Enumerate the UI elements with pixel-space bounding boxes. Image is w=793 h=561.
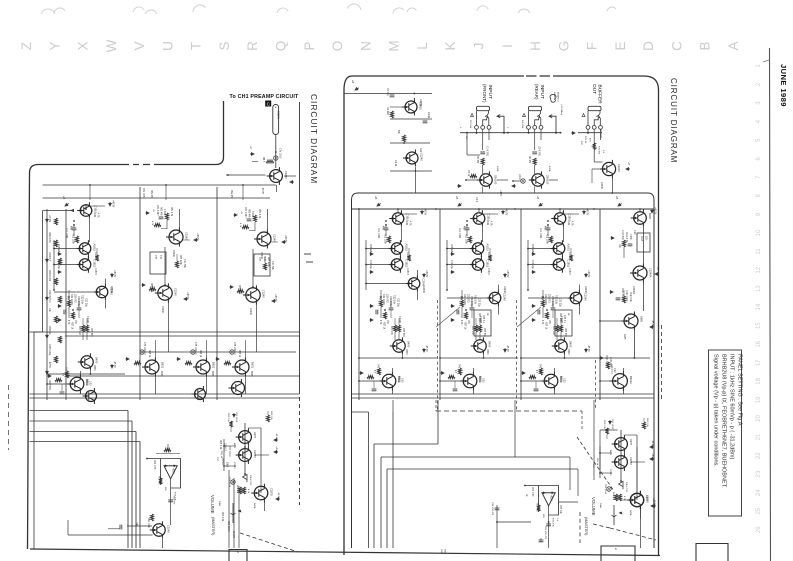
pin dot xyxy=(476,132,478,134)
wire xyxy=(164,247,166,285)
wire xyxy=(440,357,518,359)
svg-text:11: 11 xyxy=(756,248,762,255)
svg-text:C2240: C2240 xyxy=(161,306,163,313)
svg-text:(MASTER): (MASTER) xyxy=(584,517,588,536)
svg-text:+45.8V: +45.8V xyxy=(113,270,115,278)
svg-text:R75 47k: R75 47k xyxy=(598,146,600,155)
svg-text:W: W xyxy=(104,39,119,52)
wire xyxy=(238,486,240,548)
wire xyxy=(461,307,463,318)
wire xyxy=(267,411,269,415)
transistor Q2 xyxy=(403,150,418,167)
wire xyxy=(600,129,602,140)
wire xyxy=(380,290,382,300)
svg-text:R5 47k: R5 47k xyxy=(476,156,478,164)
transistor Q14 xyxy=(469,256,484,273)
svg-text:-45.8V: -45.8V xyxy=(652,498,654,505)
wire xyxy=(560,318,562,325)
wire buffer local xyxy=(578,132,602,134)
svg-text:C57 10/16: C57 10/16 xyxy=(228,446,230,457)
wire dashed xyxy=(595,360,597,410)
supply arrow xyxy=(611,237,615,240)
electrolytic capacitor C33 xyxy=(230,350,234,354)
svg-text:C1 4.7/50: C1 4.7/50 xyxy=(486,146,488,157)
wire bus xyxy=(43,184,276,186)
svg-text:C2240: C2240 xyxy=(185,232,189,240)
wire xyxy=(252,249,254,287)
svg-text:H: H xyxy=(528,41,543,51)
resistor R9 xyxy=(379,300,382,307)
svg-text:D400: D400 xyxy=(488,341,492,348)
wire xyxy=(47,373,125,375)
right block border top xyxy=(352,75,524,77)
wire xyxy=(390,310,392,318)
junction xyxy=(73,220,75,222)
svg-text:-45.8V: -45.8V xyxy=(275,433,277,440)
wire xyxy=(535,381,537,388)
resistor R28 xyxy=(559,325,562,332)
resistor R30 xyxy=(529,375,536,378)
transistor Q7 xyxy=(388,240,403,257)
transistor Q48 xyxy=(192,386,206,402)
svg-text:+N: +N xyxy=(240,211,242,214)
module box xyxy=(150,252,166,274)
supply arrow xyxy=(272,300,276,303)
junction xyxy=(146,458,148,460)
svg-text:O: O xyxy=(330,41,345,52)
wire xyxy=(127,525,152,527)
wire xyxy=(466,230,468,236)
supply arrow xyxy=(512,185,516,188)
wire bus xyxy=(392,412,394,548)
wire xyxy=(104,301,106,309)
svg-text:C2240: C2240 xyxy=(617,164,621,172)
svg-text:B631: B631 xyxy=(251,362,255,369)
junction xyxy=(466,132,468,134)
wire xyxy=(472,368,474,372)
wire xyxy=(230,427,232,432)
svg-text:0.22: 0.22 xyxy=(633,230,635,235)
svg-text:R11: R11 xyxy=(93,213,96,218)
wire xyxy=(611,178,613,193)
wire xyxy=(472,390,474,394)
wire xyxy=(398,332,400,340)
transistor Q49 xyxy=(236,428,252,446)
junction xyxy=(465,309,467,311)
wire xyxy=(514,400,516,457)
wire xyxy=(471,300,473,308)
svg-text:C2240: C2240 xyxy=(284,171,288,179)
junction xyxy=(252,286,254,288)
supply arrow xyxy=(233,413,236,417)
svg-text:R27 1k: R27 1k xyxy=(464,322,466,330)
amp section border xyxy=(358,193,654,548)
svg-text:C2240: C2240 xyxy=(172,250,174,257)
wire xyxy=(390,170,432,172)
registration dash xyxy=(304,253,311,255)
resistor R26 xyxy=(545,312,548,319)
wire feedback xyxy=(42,211,44,333)
svg-text:50V: 50V xyxy=(580,141,582,145)
supply arrow xyxy=(177,358,181,361)
bottom border line xyxy=(30,549,660,556)
wire bus xyxy=(30,410,129,412)
svg-text:18: 18 xyxy=(756,377,762,384)
wire xyxy=(205,376,207,394)
svg-text:C2240: C2240 xyxy=(273,234,277,242)
svg-text:C1-2: C1-2 xyxy=(475,197,478,203)
wire xyxy=(620,430,622,482)
svg-text:R12 150k: R12 150k xyxy=(72,234,74,245)
wire bus xyxy=(380,457,382,548)
svg-text:R83 47k: R83 47k xyxy=(248,209,250,218)
registration dash xyxy=(306,261,313,263)
supply arrow xyxy=(58,319,62,322)
supply arrow xyxy=(360,372,364,375)
wire xyxy=(549,179,558,181)
wire xyxy=(156,453,180,455)
svg-text:+B: +B xyxy=(374,196,378,200)
wire xyxy=(161,539,163,548)
module box xyxy=(555,310,572,336)
svg-text:C8x 10/50: C8x 10/50 xyxy=(142,188,144,199)
connector box xyxy=(696,544,728,561)
left block border dashed xyxy=(133,164,150,166)
junction xyxy=(548,521,550,523)
wire xyxy=(390,118,432,120)
resistor R43 xyxy=(54,278,57,285)
wire xyxy=(592,168,599,170)
svg-text:47/50: 47/50 xyxy=(48,362,50,368)
supply arrow xyxy=(58,253,62,256)
svg-text:R23 10k: R23 10k xyxy=(393,295,396,305)
transistor Q44 xyxy=(142,358,159,377)
wire xyxy=(248,427,261,429)
wire xyxy=(89,371,91,374)
wire xyxy=(390,93,432,95)
svg-text:C7x 10/16: C7x 10/16 xyxy=(279,148,281,159)
capacitor C4 xyxy=(532,152,537,154)
wire xyxy=(593,400,595,469)
svg-text:R115: R115 xyxy=(640,236,642,242)
svg-text:0.01: 0.01 xyxy=(159,255,161,260)
junction xyxy=(415,170,417,172)
svg-text:R65 2.2k: R65 2.2k xyxy=(219,440,221,450)
svg-text:A970: A970 xyxy=(253,432,257,439)
svg-text:R27 1k: R27 1k xyxy=(383,322,385,330)
supply arrow xyxy=(655,273,659,276)
jack pin xyxy=(533,126,537,130)
resistor R55 xyxy=(55,378,62,381)
resistor R52 xyxy=(81,325,84,332)
wire xyxy=(528,248,550,250)
supply arrow xyxy=(46,258,49,262)
wire xyxy=(621,499,628,501)
svg-text:R204 100k: R204 100k xyxy=(48,270,50,282)
svg-text:R11: R11 xyxy=(567,221,570,226)
wire xyxy=(47,383,68,385)
svg-text:23: 23 xyxy=(756,470,762,477)
svg-text:+45.8V: +45.8V xyxy=(274,294,276,302)
svg-text:R21 1/2W: R21 1/2W xyxy=(544,294,547,305)
junction xyxy=(89,184,91,186)
svg-text:R12 150k: R12 150k xyxy=(384,234,386,245)
svg-text:50kB: 50kB xyxy=(226,462,228,468)
wire xyxy=(68,534,153,536)
supply arrow xyxy=(532,319,536,322)
wire xyxy=(408,248,410,255)
scan artifact arc xyxy=(41,9,54,14)
wire xyxy=(43,210,74,212)
resistor R27 xyxy=(555,325,558,332)
svg-text:0.01 56k: 0.01 56k xyxy=(183,259,185,269)
svg-text:D400: D400 xyxy=(569,341,573,348)
supply arrow xyxy=(600,357,604,360)
wire xyxy=(86,318,88,325)
jack pin xyxy=(599,126,603,130)
right block border left xyxy=(344,76,352,555)
junction xyxy=(446,264,448,266)
supply arrow xyxy=(421,210,424,214)
wire xyxy=(61,384,63,391)
supply arrow xyxy=(230,286,234,289)
resistor R11 xyxy=(393,325,396,332)
wire xyxy=(471,310,473,318)
supply arrow xyxy=(184,298,188,301)
page rule line xyxy=(770,48,771,561)
wire xyxy=(577,469,579,496)
junction xyxy=(514,208,516,210)
capacitor C26 xyxy=(77,308,82,310)
diode D xyxy=(619,481,624,489)
capacitor C19 xyxy=(616,298,621,300)
resistor R68 xyxy=(266,415,269,422)
wire xyxy=(179,209,181,228)
svg-text:C11 1/2W: C11 1/2W xyxy=(539,228,541,239)
transistor Q37 xyxy=(78,353,93,370)
resistor R2 xyxy=(402,135,405,142)
wire xyxy=(528,264,550,266)
supply arrow xyxy=(504,273,507,277)
resistor R1 xyxy=(390,111,393,118)
wire bus xyxy=(30,441,141,443)
wire xyxy=(154,340,156,358)
svg-text:R121 560: R121 560 xyxy=(621,288,623,299)
module box xyxy=(254,254,270,276)
wire dashed xyxy=(581,411,583,430)
svg-text:220 IRD: 220 IRD xyxy=(386,294,389,303)
svg-text:To CH1 PREAMP CIRCUIT: To CH1 PREAMP CIRCUIT xyxy=(230,94,299,100)
wire xyxy=(600,320,623,322)
svg-text:A1015: A1015 xyxy=(92,244,96,252)
wire xyxy=(578,285,580,292)
resistor R38 xyxy=(537,505,540,511)
svg-text:R87 220k: R87 220k xyxy=(267,257,269,268)
resistor R31 xyxy=(622,240,625,247)
junction xyxy=(559,208,561,210)
wire xyxy=(639,509,641,548)
supply arrow xyxy=(650,326,654,329)
wire bus xyxy=(65,335,300,337)
capacitor C12 xyxy=(457,310,459,315)
svg-text:R12 150k: R12 150k xyxy=(546,234,548,245)
wire xyxy=(413,98,415,101)
jack bushing xyxy=(588,106,601,110)
svg-text:R87 220k: R87 220k xyxy=(179,255,181,266)
supply arrow xyxy=(451,319,455,322)
svg-text:+45.8V: +45.8V xyxy=(112,200,114,208)
wire xyxy=(385,224,387,228)
junction xyxy=(397,208,399,210)
junction xyxy=(365,264,367,266)
resistor R53 xyxy=(85,325,88,332)
wire xyxy=(599,430,601,470)
wire xyxy=(562,227,564,242)
junction xyxy=(507,132,509,134)
electrolytic capacitor C32 xyxy=(191,350,195,354)
transistor Q51 xyxy=(251,484,268,503)
scan artifact arc xyxy=(518,9,529,13)
svg-text:+45.8V: +45.8V xyxy=(425,270,427,278)
wire xyxy=(600,472,612,474)
resistor R49 xyxy=(95,255,98,261)
wire stage bus xyxy=(139,187,141,400)
svg-text:R63 2.2k: R63 2.2k xyxy=(221,512,223,522)
supply arrow xyxy=(126,358,130,361)
svg-text:G: G xyxy=(556,41,571,52)
wire xyxy=(252,161,258,163)
svg-text:22: 22 xyxy=(756,452,762,459)
wire strip bus xyxy=(439,209,441,400)
wire xyxy=(563,213,579,215)
wire xyxy=(497,521,531,523)
supply arrow xyxy=(522,372,526,375)
supply arrow xyxy=(370,271,374,274)
supply arrow xyxy=(652,505,656,508)
svg-text:R23 10k: R23 10k xyxy=(555,295,558,305)
wire xyxy=(569,457,571,490)
svg-text:C11 1/2W: C11 1/2W xyxy=(377,228,379,239)
svg-text:4.7k: 4.7k xyxy=(571,221,574,226)
wire xyxy=(244,423,246,475)
wire xyxy=(599,446,601,478)
wire xyxy=(86,332,88,340)
svg-text:R81 4.7k: R81 4.7k xyxy=(258,209,260,219)
resistor R21 xyxy=(458,368,461,375)
wire dashed diagonal xyxy=(577,437,614,491)
supply arrow xyxy=(46,296,49,300)
junction xyxy=(223,445,225,447)
capacitor C23 xyxy=(495,508,500,510)
svg-text:C1815: C1815 xyxy=(568,268,570,275)
wire xyxy=(633,330,635,358)
svg-text:R53 2.2k: R53 2.2k xyxy=(227,413,229,423)
wire dashed xyxy=(435,400,437,411)
wire xyxy=(385,230,387,236)
wire xyxy=(466,133,468,155)
svg-text:C2240: C2240 xyxy=(253,450,257,458)
supply arrow xyxy=(502,210,505,214)
junction xyxy=(380,296,382,298)
svg-text:13: 13 xyxy=(756,285,762,292)
svg-text:C55 10/16: C55 10/16 xyxy=(235,412,237,423)
svg-text:(FRONT): (FRONT) xyxy=(482,84,487,103)
wire diagonal xyxy=(517,307,541,327)
resistor R47 xyxy=(54,356,57,363)
resistor R4 xyxy=(470,174,477,177)
junction xyxy=(85,208,87,210)
wire strip bus xyxy=(599,209,601,400)
ground return arrow xyxy=(549,115,556,133)
junction xyxy=(599,357,601,359)
wire xyxy=(68,307,70,318)
board reference symbol xyxy=(550,95,556,103)
capacitor C11 xyxy=(470,308,475,310)
svg-text:R3 1k: R3 1k xyxy=(394,160,397,167)
svg-text:PANEL SETTING : See Fig.A: PANEL SETTING : See Fig.A xyxy=(737,354,743,426)
wire xyxy=(559,209,561,212)
wire xyxy=(67,520,69,535)
wire xyxy=(170,510,172,525)
junction xyxy=(223,465,225,467)
wire xyxy=(30,397,300,399)
svg-text:Q: Q xyxy=(274,41,289,52)
wire xyxy=(478,209,480,212)
svg-text:R85 4.7k: R85 4.7k xyxy=(238,285,240,295)
svg-text:J: J xyxy=(472,43,487,50)
wire xyxy=(587,129,589,132)
wire xyxy=(600,380,611,382)
op-amp IC U2 xyxy=(147,459,181,489)
wire xyxy=(366,283,405,285)
wire xyxy=(414,167,416,171)
supply arrow xyxy=(370,305,374,308)
resistor R64 xyxy=(134,361,141,364)
wire xyxy=(226,174,266,176)
wire xyxy=(547,230,549,236)
wire stage bus xyxy=(65,209,67,400)
resistor R58 xyxy=(175,261,178,268)
svg-text:10/16: 10/16 xyxy=(518,174,520,180)
wire xyxy=(66,375,300,377)
transistor Q24 xyxy=(631,209,647,227)
supply arrow xyxy=(216,358,220,361)
svg-text:12: 12 xyxy=(756,266,762,273)
wire xyxy=(85,204,87,209)
wire bus xyxy=(30,431,137,433)
svg-text:R123 10k: R123 10k xyxy=(629,292,631,303)
resistor R24 xyxy=(569,255,572,261)
svg-text:15: 15 xyxy=(756,322,762,329)
wire dashed xyxy=(579,512,581,543)
delta mark xyxy=(523,114,526,117)
svg-text:R11: R11 xyxy=(486,221,489,226)
wire xyxy=(547,224,549,228)
capacitor C25 xyxy=(72,228,77,230)
wire bus xyxy=(43,197,270,199)
contact arrow xyxy=(535,115,540,125)
wire bus xyxy=(30,420,133,422)
wire xyxy=(622,368,624,372)
svg-text:C81 0.047: C81 0.047 xyxy=(156,205,158,216)
svg-text:0.01 56k: 0.01 56k xyxy=(271,261,273,271)
svg-text:VOLUME: VOLUME xyxy=(591,497,596,516)
wire xyxy=(578,307,580,315)
svg-text:C2240: C2240 xyxy=(609,469,611,476)
junction xyxy=(402,357,404,359)
svg-text:B631A: B631A xyxy=(629,376,633,384)
supply arrow xyxy=(451,253,455,256)
